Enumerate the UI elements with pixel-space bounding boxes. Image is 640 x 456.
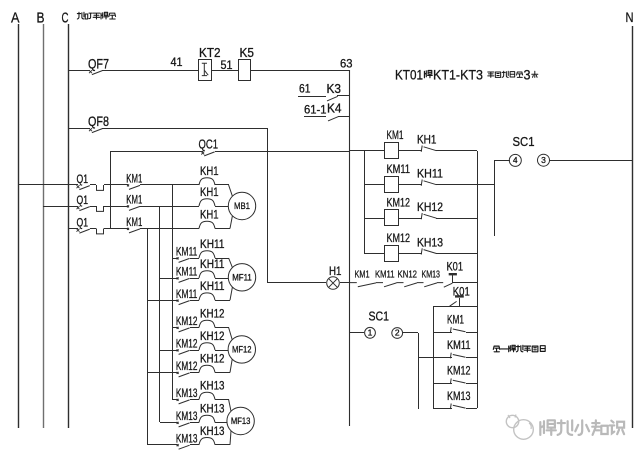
svg-text:KH12: KH12 xyxy=(200,309,225,321)
phase line C xyxy=(68,24,70,428)
svg-text:KM12: KM12 xyxy=(176,361,198,373)
svg-text:KH13: KH13 xyxy=(200,426,225,438)
svg-text:KM11: KM11 xyxy=(387,162,411,176)
feeder tap phase B xyxy=(159,206,161,422)
svg-text:B: B xyxy=(37,10,45,27)
svg-text:KM13: KM13 xyxy=(176,388,198,400)
svg-text:KM12: KM12 xyxy=(447,364,471,378)
inner bus for coil rows xyxy=(364,151,366,254)
svg-text:KM11: KM11 xyxy=(176,289,198,301)
watermark text xyxy=(540,420,555,435)
svg-text:KN12: KN12 xyxy=(398,269,418,281)
wire MF12 phase row 3 xyxy=(148,372,177,374)
wire junction to right bus xyxy=(453,282,477,284)
svg-text:N: N xyxy=(626,9,634,25)
svg-text:QC1: QC1 xyxy=(199,137,219,152)
svg-text:KM12: KM12 xyxy=(176,316,198,328)
svg-text:MB1: MB1 xyxy=(234,201,250,211)
wire MF12 phase row 1 xyxy=(173,327,177,329)
svg-text:KH11: KH11 xyxy=(200,259,225,271)
contact blade to link K01 xyxy=(444,283,453,287)
svg-text:QF8: QF8 xyxy=(88,114,109,129)
svg-text:KT01: KT01 xyxy=(395,66,423,82)
watermark logo xyxy=(506,415,518,427)
svg-text:KH12: KH12 xyxy=(200,331,225,343)
wire MB1 phase row 1 xyxy=(18,184,78,186)
wire lamp feed vertical xyxy=(267,128,269,283)
phase line B xyxy=(43,24,45,428)
wire coil row 2 xyxy=(365,184,384,186)
wire coil row 3 xyxy=(365,218,384,220)
terminal 2 xyxy=(392,328,403,339)
svg-text:KH12: KH12 xyxy=(200,354,225,366)
svg-text:KM12: KM12 xyxy=(176,339,198,351)
right bus vertical xyxy=(477,151,479,408)
svg-text:KH1: KH1 xyxy=(200,210,219,222)
label 切换后电源 xyxy=(77,12,84,19)
svg-text:MF13: MF13 xyxy=(231,416,251,426)
svg-text:K4: K4 xyxy=(327,102,342,116)
svg-text:K3: K3 xyxy=(327,82,342,96)
wire QF7 row xyxy=(68,70,90,72)
motor MF13 xyxy=(227,407,254,434)
contact stack frame xyxy=(433,306,477,308)
svg-text:61-1: 61-1 xyxy=(304,105,327,117)
neutral line N xyxy=(632,26,634,428)
wire MF13 phase row 1 xyxy=(173,399,177,401)
svg-text:MF11: MF11 xyxy=(232,272,252,282)
svg-text:KM13: KM13 xyxy=(176,433,198,445)
svg-text:KM13: KM13 xyxy=(422,269,441,281)
terminal 4 xyxy=(494,160,510,162)
wire coil row 1 xyxy=(350,150,384,152)
wire QF7 to KT2 xyxy=(102,70,198,72)
svg-text:51: 51 xyxy=(221,58,233,72)
svg-text:C: C xyxy=(62,10,69,27)
wire drop from terminal 2 xyxy=(403,332,418,334)
svg-text:Q1: Q1 xyxy=(77,216,89,230)
svg-text:KM1: KM1 xyxy=(355,269,370,281)
svg-text:SC1: SC1 xyxy=(369,309,390,324)
note 第一组冷控回路 xyxy=(493,346,499,352)
terminal 3 xyxy=(538,154,550,166)
svg-text:KT2: KT2 xyxy=(199,46,221,60)
wire MF12 phase row 2 xyxy=(160,350,177,352)
wire MF11 phase row 3 xyxy=(148,300,177,302)
wire K5 to bus xyxy=(250,70,350,72)
svg-text:KH11: KH11 xyxy=(200,281,225,293)
feeder tap phase C xyxy=(147,228,149,445)
svg-text:KM12: KM12 xyxy=(387,231,411,245)
svg-text:4: 4 xyxy=(513,155,518,165)
svg-text:K01: K01 xyxy=(447,259,464,273)
svg-text:3: 3 xyxy=(524,67,531,82)
svg-text:H1: H1 xyxy=(329,264,342,278)
svg-text:KH13: KH13 xyxy=(417,235,443,249)
svg-text:K5: K5 xyxy=(240,46,255,60)
svg-text:KH11: KH11 xyxy=(417,167,443,181)
phase line A xyxy=(18,24,20,428)
svg-text:2: 2 xyxy=(395,328,400,338)
wire KT2 to K5 xyxy=(211,70,238,72)
svg-text:KH13: KH13 xyxy=(200,381,225,393)
svg-text:Q1: Q1 xyxy=(77,172,89,186)
svg-text:KM11: KM11 xyxy=(176,247,198,259)
feeder tap phase A xyxy=(172,185,174,400)
wire MF11 phase row 1 xyxy=(173,258,177,260)
svg-text:63: 63 xyxy=(340,56,353,70)
motor MF12 xyxy=(228,336,255,363)
svg-text:MF12: MF12 xyxy=(232,344,252,354)
svg-text:KM1: KM1 xyxy=(387,128,404,142)
wire MB1 phase row 3 xyxy=(68,228,78,230)
svg-text:KM11: KM11 xyxy=(447,338,471,352)
svg-text:KM11: KM11 xyxy=(375,269,395,281)
wire MF13 phase row 3 xyxy=(148,444,177,446)
wire QC1 drop xyxy=(110,151,112,228)
svg-text:KM11: KM11 xyxy=(176,267,198,279)
svg-text:SC1: SC1 xyxy=(513,134,535,149)
svg-text:KH12: KH12 xyxy=(417,200,443,214)
svg-text:KM13: KM13 xyxy=(447,389,471,403)
svg-text:KM1: KM1 xyxy=(126,195,142,207)
wire MF13 phase row 2 xyxy=(160,422,177,424)
series contact chain wires xyxy=(350,283,443,287)
svg-text:KM13: KM13 xyxy=(176,411,198,423)
svg-text:KH1: KH1 xyxy=(200,187,219,199)
svg-text:QF7: QF7 xyxy=(88,57,109,72)
svg-text:3: 3 xyxy=(541,155,546,165)
svg-text:KH13: KH13 xyxy=(200,404,225,416)
svg-text:1: 1 xyxy=(368,327,373,337)
svg-text:KH11: KH11 xyxy=(200,239,225,251)
motor MB1 xyxy=(228,192,255,219)
svg-text:41: 41 xyxy=(171,55,183,69)
svg-text:KM1: KM1 xyxy=(126,174,142,186)
terminal 1 xyxy=(350,332,364,334)
motor MF11 xyxy=(228,264,255,291)
wire MF11 phase row 2 xyxy=(160,278,177,280)
wire MB1 phase row 2 xyxy=(43,206,78,208)
wire coil row 4 xyxy=(365,253,384,255)
svg-text:A: A xyxy=(11,10,20,27)
wire terminal 3 to N xyxy=(549,160,632,162)
svg-text:Q1: Q1 xyxy=(77,193,89,207)
control bus vertical xyxy=(349,70,351,426)
svg-text:KM1: KM1 xyxy=(447,313,464,327)
svg-text:61: 61 xyxy=(299,82,311,96)
svg-text:KT1-KT3: KT1-KT3 xyxy=(433,66,483,82)
svg-text:KM1: KM1 xyxy=(126,217,142,229)
wire drop from terminal 4 xyxy=(494,160,496,236)
svg-text:KH1: KH1 xyxy=(200,166,219,178)
svg-text:KH1: KH1 xyxy=(417,133,437,147)
svg-text:KM12: KM12 xyxy=(387,196,411,210)
